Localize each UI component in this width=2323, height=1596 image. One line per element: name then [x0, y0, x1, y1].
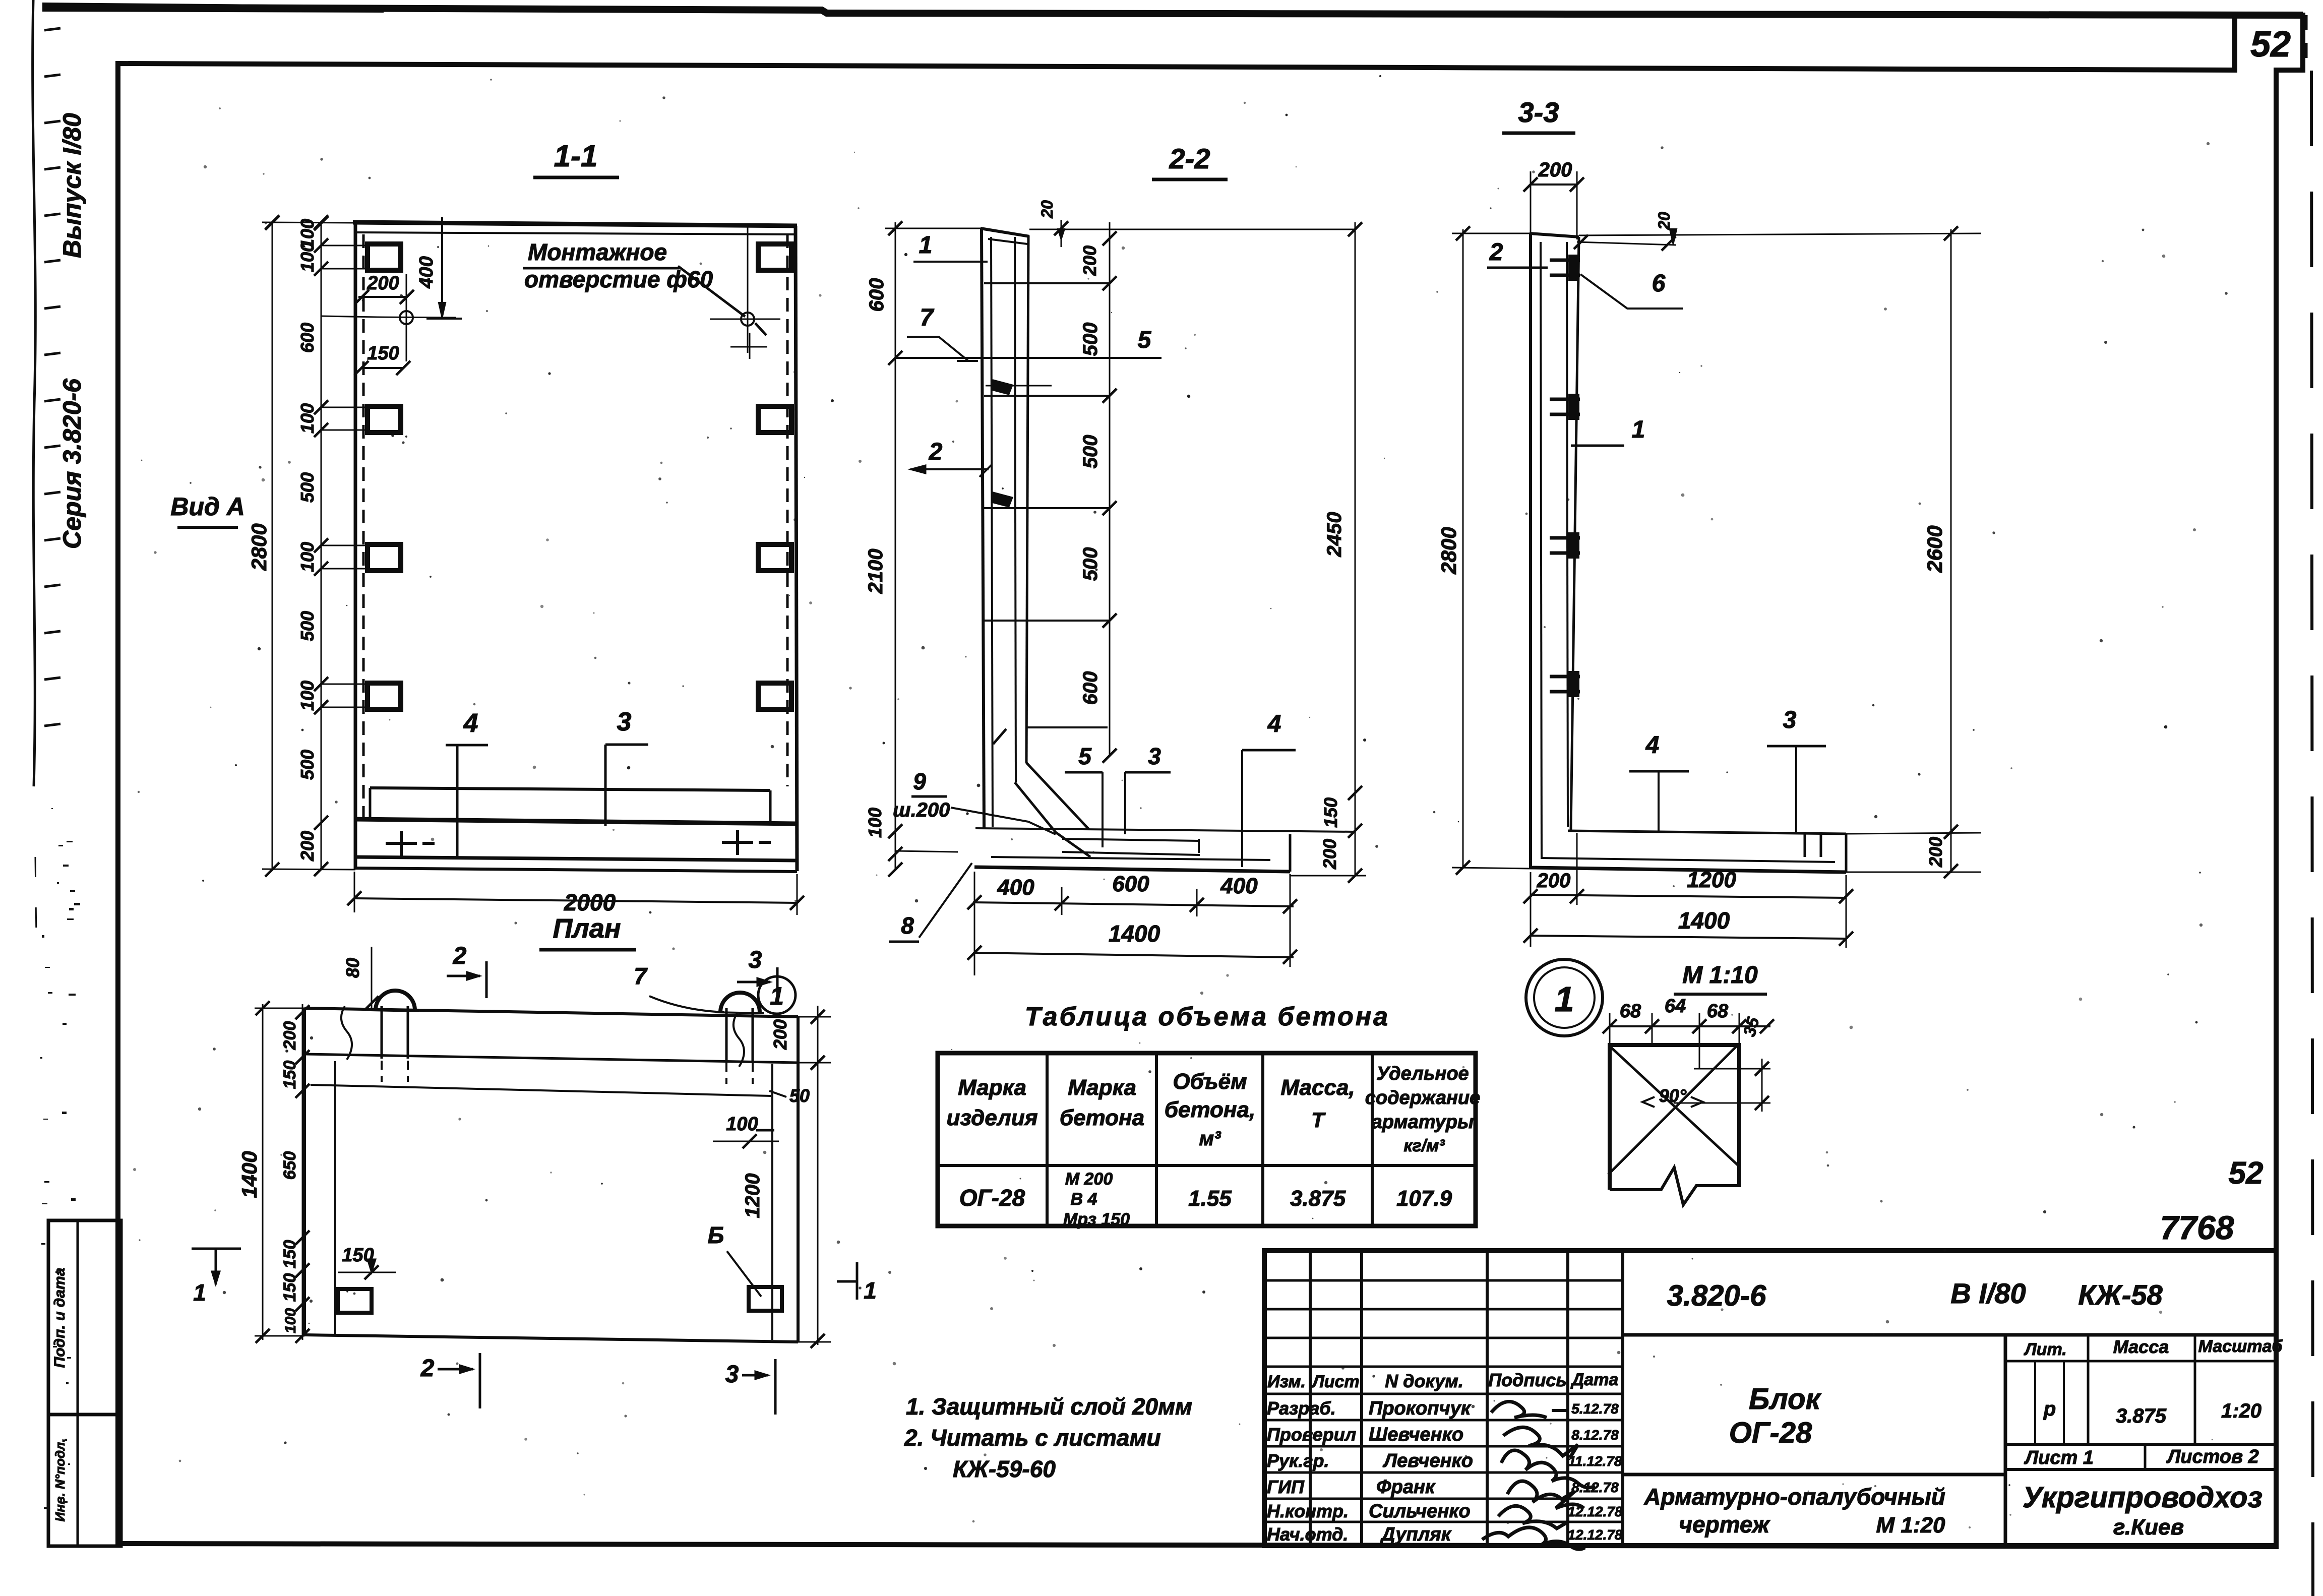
svg-text:9: 9	[913, 768, 926, 794]
svg-text:1: 1	[864, 1277, 877, 1304]
svg-text:Вид А: Вид А	[170, 493, 245, 521]
svg-text:изделия: изделия	[946, 1106, 1037, 1130]
svg-text:150: 150	[280, 1061, 299, 1089]
lifting loop left (plan)	[376, 991, 415, 1010]
svg-text:Масса,: Масса,	[1280, 1075, 1355, 1100]
svg-text:5: 5	[1138, 327, 1152, 353]
svg-text:р: р	[2043, 1398, 2056, 1420]
svg-text:400: 400	[416, 256, 437, 288]
top dim 200 (3-3)	[1531, 183, 1577, 186]
svg-text:20: 20	[1038, 200, 1056, 219]
svg-text:Франк: Франк	[1376, 1477, 1436, 1498]
page top scan band	[43, 7, 2303, 15]
svg-text:2000: 2000	[564, 889, 616, 915]
svg-text:68: 68	[1620, 1001, 1641, 1022]
svg-text:ОГ-28: ОГ-28	[959, 1185, 1025, 1211]
svg-text:7: 7	[634, 963, 648, 989]
leader to mounting hole	[678, 266, 745, 317]
svg-text:1400: 1400	[1678, 907, 1730, 934]
svg-text:200: 200	[1079, 245, 1100, 276]
svg-text:200: 200	[366, 273, 399, 294]
svg-text:Таблица объема бетона: Таблица объема бетона	[1025, 1002, 1390, 1031]
svg-text:Монтажное: Монтажное	[528, 239, 667, 265]
panel outline 1-1	[353, 222, 797, 226]
svg-text:68: 68	[1707, 1001, 1729, 1022]
hook marks 3-3	[1550, 259, 1580, 262]
svg-text:3: 3	[749, 947, 762, 973]
left page edge scan line	[33, 0, 36, 786]
svg-text:11.12.78: 11.12.78	[1568, 1453, 1622, 1469]
section mark 1 right (plan)	[856, 1262, 859, 1300]
svg-text:Нач.отд.: Нач.отд.	[1267, 1524, 1348, 1545]
detail break line	[1610, 1168, 1739, 1205]
svg-text:КЖ-59-60: КЖ-59-60	[953, 1456, 1056, 1482]
svg-text:Лист 1: Лист 1	[2024, 1447, 2094, 1468]
sheet number box 52 top right	[2232, 15, 2237, 70]
footing edge in plan	[311, 1085, 771, 1096]
section mark 1 left (plan)	[192, 1248, 241, 1250]
svg-text:Масса: Масса	[2113, 1336, 2169, 1357]
svg-text:20: 20	[1655, 212, 1673, 230]
svg-text:200: 200	[1537, 870, 1571, 892]
dim 80 (plan)	[371, 947, 373, 1009]
svg-text:200: 200	[280, 1021, 299, 1051]
svg-text:3: 3	[725, 1361, 739, 1388]
svg-text:2800: 2800	[1437, 527, 1460, 574]
svg-text:Масштаб: Масштаб	[2198, 1337, 2283, 1356]
svg-text:6: 6	[1652, 270, 1666, 297]
svg-text:1.55: 1.55	[1188, 1186, 1232, 1211]
svg-text:100: 100	[726, 1114, 758, 1135]
svg-text:500: 500	[297, 472, 318, 503]
svg-text:8.12.78: 8.12.78	[1571, 1480, 1619, 1495]
svg-text:г.Киев: г.Киев	[2113, 1515, 2184, 1540]
svg-text:Подп. и дата: Подп. и дата	[51, 1268, 68, 1368]
svg-text:ш.200: ш.200	[893, 799, 950, 821]
svg-text:4: 4	[1645, 732, 1660, 759]
svg-text:200: 200	[1925, 837, 1946, 868]
hidden edge dashed right	[786, 234, 789, 786]
svg-text:150: 150	[367, 343, 399, 364]
svg-text:2: 2	[420, 1355, 435, 1382]
svg-text:100: 100	[297, 681, 318, 711]
svg-text:107.9: 107.9	[1396, 1186, 1452, 1211]
svg-text:Арматурно-опалубочный: Арматурно-опалубочный	[1643, 1484, 1945, 1510]
svg-text:2: 2	[929, 439, 943, 465]
svg-text:1400: 1400	[1109, 920, 1160, 947]
hook marks 2-2	[992, 380, 1012, 394]
svg-text:бетона: бетона	[1060, 1106, 1144, 1130]
svg-text:План: План	[553, 913, 621, 944]
svg-text:12.12.78: 12.12.78	[1568, 1527, 1623, 1543]
svg-text:Разраб.: Разраб.	[1267, 1398, 1336, 1419]
inner verticals plan	[334, 1061, 336, 1335]
svg-text:12.12.78: 12.12.78	[1568, 1504, 1623, 1519]
lit massa masshtab section	[2004, 1335, 2007, 1546]
svg-text:Т: Т	[1311, 1108, 1326, 1132]
svg-text:1:20: 1:20	[2221, 1400, 2261, 1422]
svg-text:500: 500	[1079, 323, 1102, 356]
svg-text:1: 1	[193, 1279, 206, 1306]
svg-text:кг/м³: кг/м³	[1403, 1136, 1445, 1155]
left dim chain 2-2 (600,2100,100)	[895, 222, 896, 870]
signature squiggles	[1491, 1401, 1547, 1418]
svg-text:2: 2	[453, 943, 467, 969]
svg-text:52: 52	[2250, 24, 2291, 65]
svg-text:М 1:10: М 1:10	[1682, 962, 1758, 989]
designation cell	[1623, 1333, 2276, 1337]
svg-text:600: 600	[866, 278, 888, 312]
detail square with X	[1610, 1045, 1739, 1190]
title block revision rows	[1264, 1279, 1623, 1282]
svg-text:400: 400	[997, 875, 1034, 900]
svg-text:7768: 7768	[2160, 1209, 2234, 1246]
svg-text:2450: 2450	[1323, 512, 1346, 558]
svg-text:Рук.гр.: Рук.гр.	[1267, 1450, 1329, 1471]
svg-text:150: 150	[280, 1273, 299, 1302]
base section 3-3	[1568, 831, 1846, 834]
wall inner face in plan	[304, 1054, 798, 1063]
bent bar / haunch 2-2	[1026, 763, 1089, 829]
svg-text:Шевченко: Шевченко	[1369, 1424, 1463, 1445]
svg-text:100: 100	[297, 403, 318, 434]
svg-text:1: 1	[1555, 979, 1574, 1019]
right dim chain 2-2 (2450,150,200)	[1355, 222, 1356, 876]
svg-text:4: 4	[463, 709, 478, 738]
svg-text:Лист: Лист	[1311, 1372, 1359, 1391]
svg-text:Серия 3.820-6: Серия 3.820-6	[58, 378, 86, 549]
svg-text:8.12.78: 8.12.78	[1571, 1427, 1619, 1443]
svg-text:3: 3	[617, 707, 632, 736]
svg-text:3.875: 3.875	[2116, 1405, 2167, 1427]
title block revision columns	[1309, 1251, 1312, 1546]
svg-text:1: 1	[1632, 416, 1645, 443]
tie bars 2-2	[984, 282, 1110, 284]
svg-text:1-1: 1-1	[554, 139, 598, 173]
svg-text:3.820-6: 3.820-6	[1667, 1279, 1766, 1312]
left dim chain (plan) 200/150/650/150/150/100	[302, 1004, 303, 1340]
svg-text:В 4: В 4	[1071, 1190, 1097, 1209]
svg-text:ГИП: ГИП	[1267, 1477, 1305, 1497]
dim 20 top 2-2	[1061, 220, 1062, 247]
dim 200 at hole 1-1	[358, 296, 407, 298]
svg-text:В I/80: В I/80	[1950, 1277, 2026, 1309]
binding edge marks	[44, 28, 60, 30]
svg-text:100: 100	[297, 542, 318, 572]
svg-text:80: 80	[342, 958, 363, 978]
right dim 2600 and 200 (3-3)	[1950, 229, 1952, 873]
svg-text:100: 100	[282, 1308, 299, 1333]
svg-text:Листов 2: Листов 2	[2166, 1446, 2259, 1467]
recess rect lower-right (plan)	[749, 1287, 782, 1311]
svg-text:Подпись: Подпись	[1488, 1370, 1567, 1390]
anchor mark left	[386, 842, 417, 845]
mounting hole left	[400, 311, 413, 324]
svg-text:600: 600	[1112, 872, 1149, 896]
recess rectangles 1-1	[368, 244, 401, 270]
svg-text:3.875: 3.875	[1290, 1186, 1346, 1211]
detail top dims 68/64/68/35	[1610, 1025, 1770, 1027]
svg-text:содержание: содержание	[1365, 1087, 1481, 1109]
svg-text:1200: 1200	[742, 1174, 764, 1218]
lifting loop right (plan)	[720, 993, 760, 1012]
title underline 1-1	[533, 176, 619, 179]
svg-text:Объём: Объём	[1173, 1069, 1247, 1094]
svg-text:Удельное: Удельное	[1376, 1063, 1469, 1084]
bottom dims 200/1200 and 1400 (3-3)	[1531, 895, 1846, 898]
svg-text:Прокопчук: Прокопчук	[1369, 1398, 1472, 1419]
svg-text:200: 200	[770, 1019, 790, 1050]
extension lines to recesses	[321, 245, 369, 247]
right dim chain (plan) 200/1200	[817, 1006, 819, 1345]
scan speckles	[819, 294, 821, 296]
svg-text:2800: 2800	[247, 523, 271, 571]
anchor mark right	[722, 841, 753, 844]
svg-text:Сильченко: Сильченко	[1369, 1501, 1471, 1522]
svg-text:35: 35	[1740, 1015, 1763, 1038]
break marks plan	[341, 1006, 352, 1060]
svg-text:Мрз 150: Мрз 150	[1063, 1210, 1130, 1229]
svg-text:3: 3	[1783, 707, 1797, 733]
svg-text:200: 200	[297, 831, 318, 862]
svg-text:1: 1	[919, 232, 933, 259]
svg-text:600: 600	[1079, 671, 1102, 705]
svg-text:2. Читать с листами: 2. Читать с листами	[904, 1425, 1161, 1451]
base section 2-2	[975, 828, 1355, 832]
svg-text:200: 200	[1319, 839, 1340, 870]
svg-text:500: 500	[1079, 435, 1102, 469]
svg-text:ОГ-28: ОГ-28	[1729, 1417, 1812, 1449]
svg-text:1200: 1200	[1687, 868, 1736, 892]
svg-text:отверстие ф60: отверстие ф60	[524, 266, 713, 292]
svg-text:1400: 1400	[237, 1151, 261, 1198]
svg-text:2100: 2100	[865, 549, 887, 594]
plan outline	[304, 1008, 798, 1017]
middle dim chain 2-2 (20,200,500x3,600)	[1109, 222, 1111, 756]
svg-text:100: 100	[865, 808, 885, 838]
svg-text:Лит.: Лит.	[2023, 1340, 2066, 1359]
concrete volume table grid	[938, 1053, 1476, 1226]
detail right small dims	[1694, 1068, 1770, 1070]
svg-text:бетона,: бетона,	[1165, 1097, 1255, 1122]
dim chain 1-1 overall 2800	[272, 222, 273, 870]
svg-text:500: 500	[297, 750, 318, 780]
right page edge dashes	[2311, 71, 2313, 1596]
detail circle 1 (plan)	[758, 976, 796, 1014]
svg-text:КЖ-58: КЖ-58	[2078, 1279, 2163, 1311]
svg-text:1: 1	[770, 982, 784, 1010]
left dim 2800 (3-3)	[1462, 229, 1464, 869]
title block outer	[1264, 1251, 2276, 1546]
wall section 3-3	[1529, 233, 1532, 869]
svg-text:3-3: 3-3	[1518, 96, 1559, 128]
svg-text:500: 500	[297, 611, 318, 641]
svg-text:арматуры: арматуры	[1372, 1112, 1474, 1133]
svg-text:Проверил: Проверил	[1267, 1424, 1356, 1445]
svg-text:Укргипроводхоз: Укргипроводхоз	[2023, 1481, 2263, 1514]
svg-text:2-2: 2-2	[1169, 143, 1210, 174]
svg-text:Блок: Блок	[1749, 1383, 1822, 1416]
svg-text:Выпуск I/80: Выпуск I/80	[58, 113, 86, 258]
svg-text:м³: м³	[1199, 1128, 1222, 1150]
svg-text:Инв. N°подл.: Инв. N°подл.	[52, 1439, 68, 1522]
bottom dims 2-2 400/600/400 and 1400	[973, 902, 1294, 906]
svg-text:2600: 2600	[1923, 525, 1946, 573]
dim 150 at recess 1-1	[361, 367, 403, 369]
svg-text:64: 64	[1665, 996, 1686, 1017]
svg-text:600: 600	[297, 323, 318, 353]
svg-text:5: 5	[1078, 743, 1092, 769]
svg-text:Дата: Дата	[1570, 1370, 1619, 1389]
svg-text:400: 400	[1220, 874, 1258, 898]
hidden edge dashed left	[362, 234, 365, 822]
svg-text:Марка: Марка	[1068, 1075, 1136, 1100]
svg-text:650: 650	[280, 1151, 299, 1180]
base tick marks (3-3)	[1804, 832, 1806, 857]
detail circle 1	[1526, 959, 1603, 1036]
wall section 2-2	[982, 228, 984, 829]
svg-text:50: 50	[789, 1085, 810, 1106]
mounting hole right	[741, 313, 754, 326]
svg-text:N докум.: N докум.	[1385, 1371, 1463, 1391]
svg-text:52: 52	[2229, 1156, 2264, 1191]
svg-text:М 200: М 200	[1065, 1170, 1113, 1189]
svg-text:7: 7	[920, 304, 935, 331]
left overall dim 1400 (plan)	[262, 1004, 264, 1340]
svg-text:4: 4	[1267, 711, 1281, 738]
svg-text:100: 100	[297, 242, 318, 272]
svg-text:5.12.78: 5.12.78	[1571, 1401, 1619, 1417]
svg-text:М 1:20: М 1:20	[1876, 1513, 1945, 1538]
footing band 1-1	[370, 788, 770, 790]
svg-text:3: 3	[1148, 743, 1161, 769]
svg-text:1. Защитный слой 20мм: 1. Защитный слой 20мм	[906, 1393, 1192, 1420]
svg-text:150: 150	[280, 1240, 299, 1269]
dim 20 top right (3-3)	[1577, 242, 1676, 245]
svg-text:Б: Б	[708, 1222, 724, 1248]
svg-text:чертеж: чертеж	[1679, 1511, 1770, 1538]
svg-text:150: 150	[1320, 797, 1341, 828]
svg-text:Н.контр.: Н.контр.	[1267, 1501, 1349, 1521]
svg-text:Марка: Марка	[958, 1075, 1026, 1100]
svg-text:2: 2	[1489, 239, 1503, 266]
svg-text:Левченко: Левченко	[1382, 1450, 1473, 1471]
dim chain 1-1 segments	[321, 222, 322, 870]
dim 2000 bottom 1-1	[354, 898, 797, 903]
recess rect lower-left (plan)	[338, 1289, 372, 1313]
svg-text:Дупляк: Дупляк	[1380, 1524, 1452, 1545]
left margin stamp boxes	[48, 1220, 121, 1415]
svg-text:200: 200	[1538, 159, 1572, 181]
dim 400 vertical to hole	[441, 217, 443, 319]
svg-text:500: 500	[1079, 547, 1102, 581]
svg-text:Изм.: Изм.	[1267, 1372, 1306, 1391]
svg-text:8: 8	[901, 912, 914, 939]
